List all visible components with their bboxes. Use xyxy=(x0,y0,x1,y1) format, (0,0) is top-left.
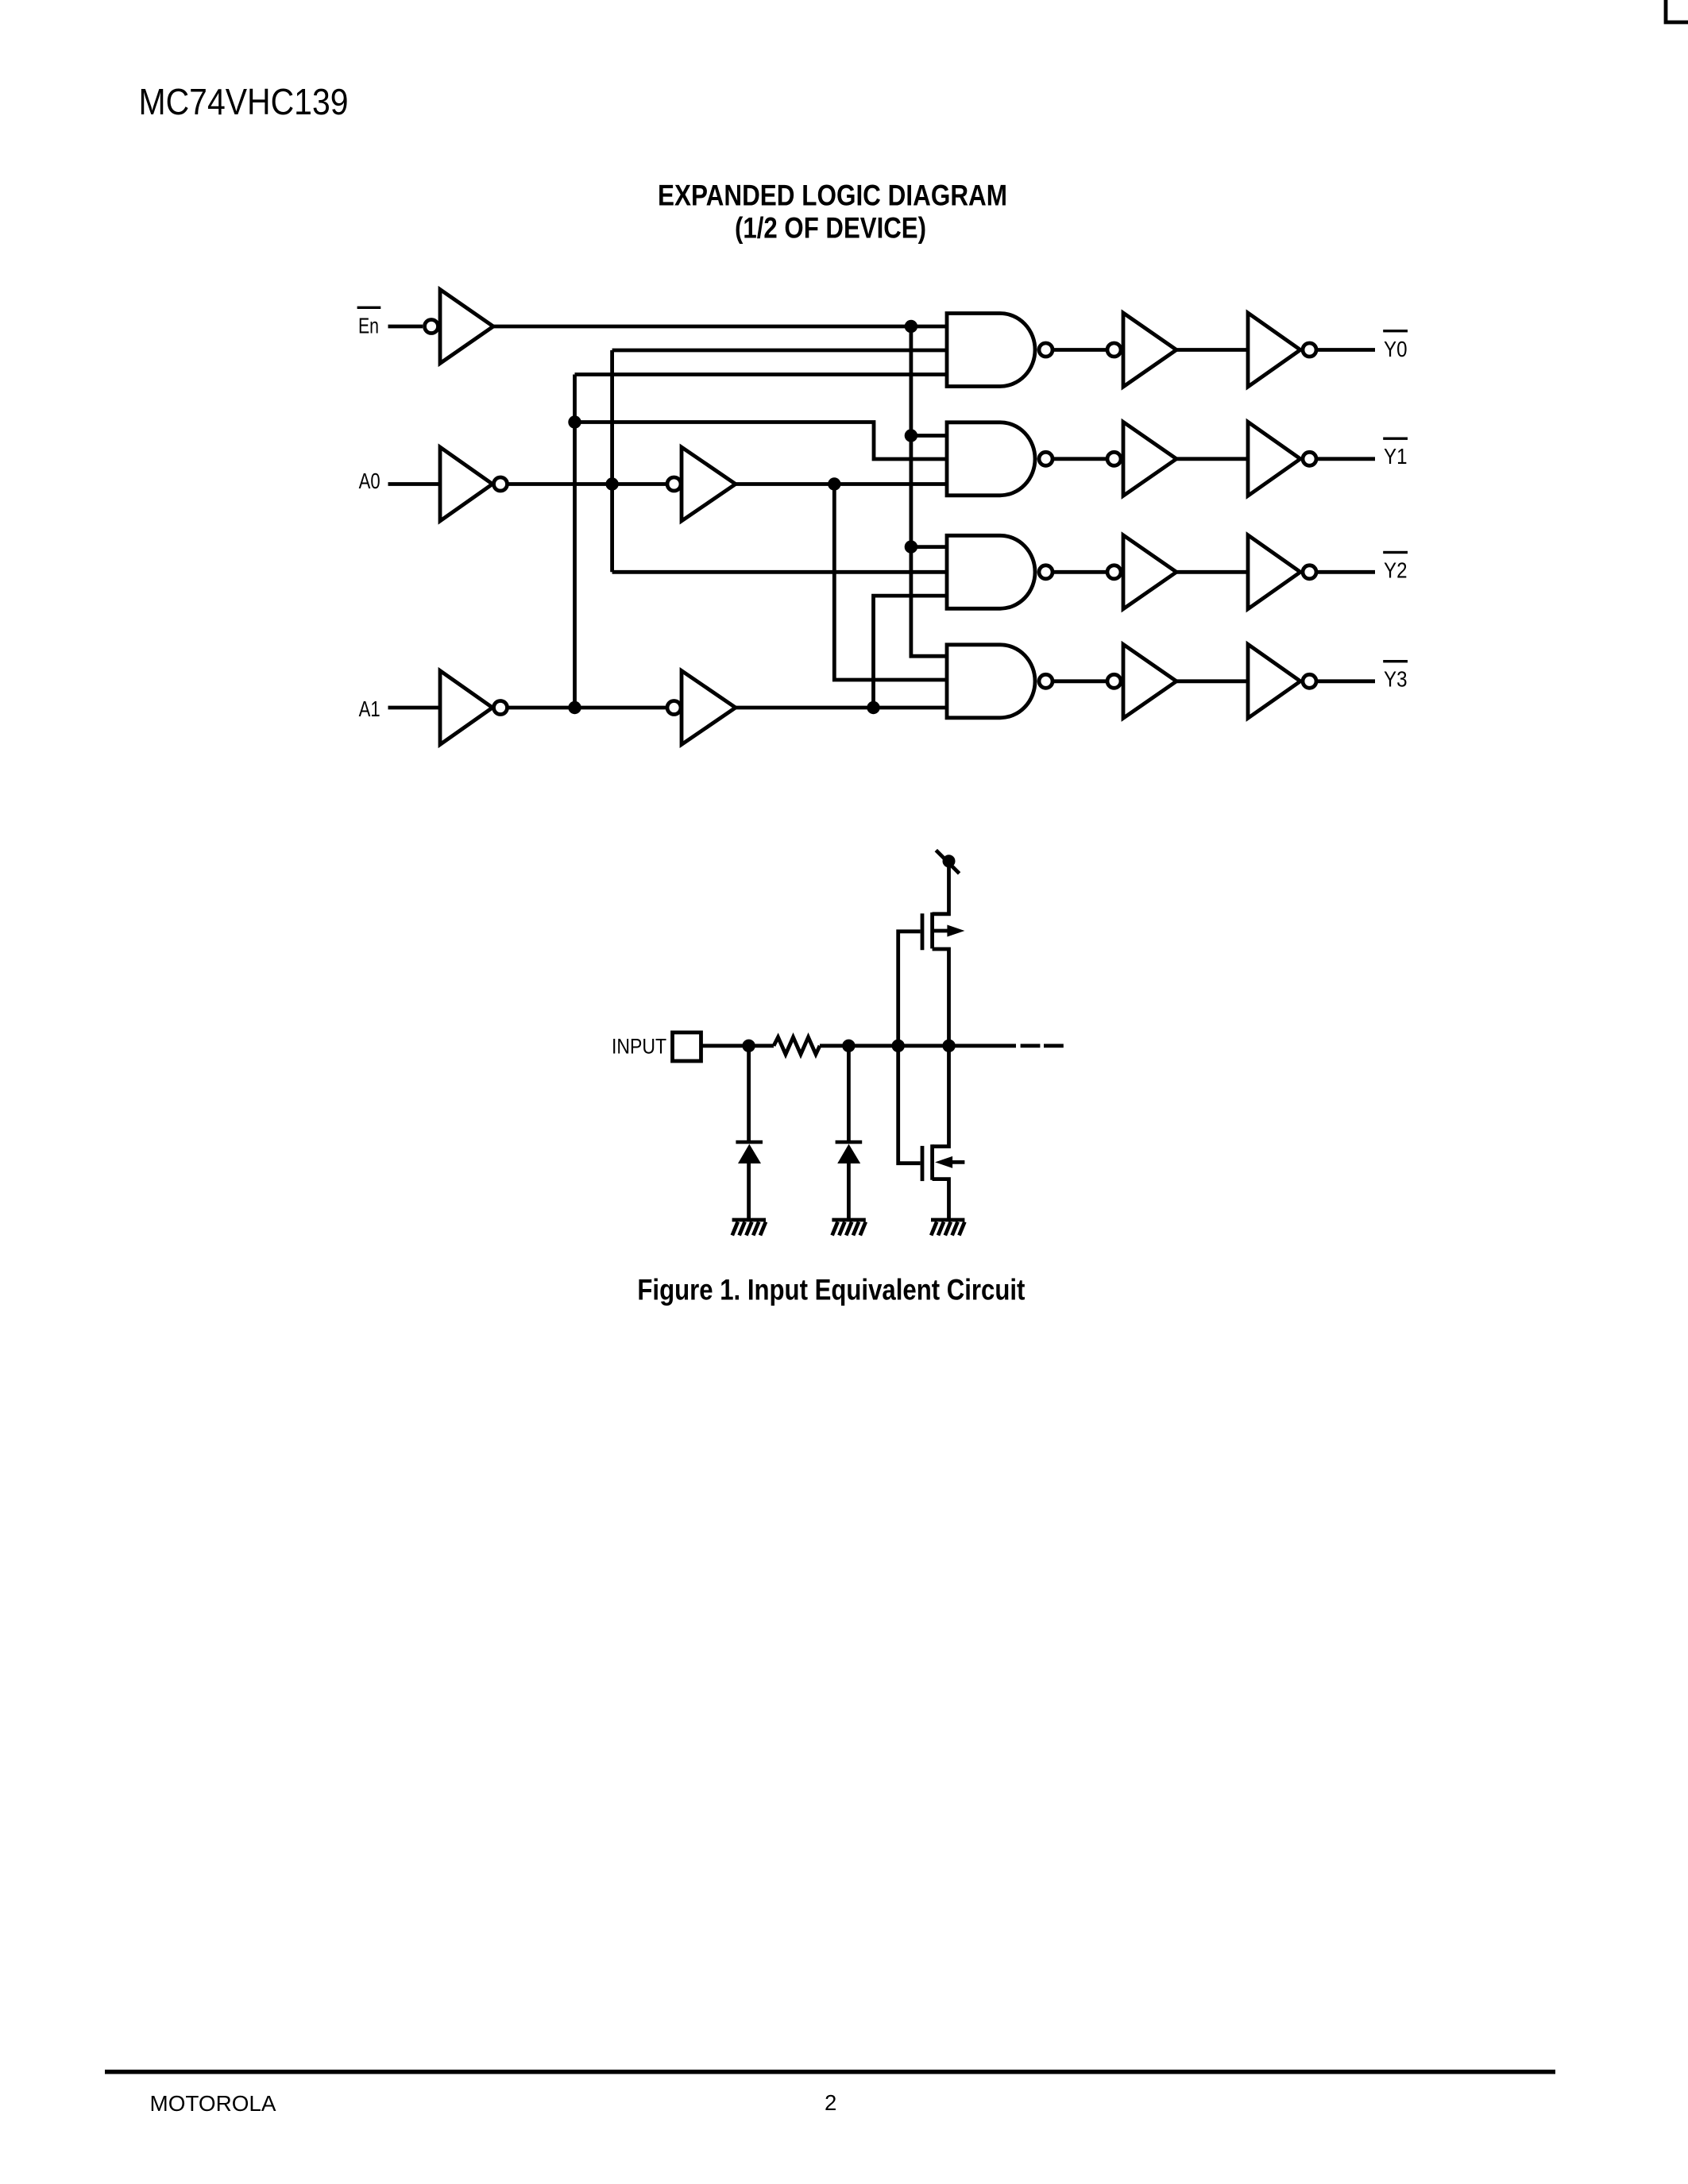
NAND gate G2 (Y1) xyxy=(947,423,1053,496)
node En label xyxy=(357,307,381,338)
wire D2 to ground xyxy=(847,1163,851,1220)
node Y3 label xyxy=(1383,660,1408,692)
diode D1 anode wire xyxy=(747,1046,751,1142)
diode D2 anode wire xyxy=(847,1046,851,1142)
node junction J2 xyxy=(842,1040,855,1052)
svg-text:(1/2 OF DEVICE): (1/2 OF DEVICE) xyxy=(735,212,926,245)
ground symbol D1 xyxy=(732,1220,766,1236)
wire row Y2 interstage xyxy=(1176,570,1248,574)
inverter U4a A1 (output bubble) xyxy=(440,671,508,745)
inverter U1a En (input bubble) xyxy=(425,290,494,364)
wire row Y1 interstage xyxy=(1176,457,1248,461)
wire A0-bar segment xyxy=(508,482,666,486)
node En bus to NAND3 junction xyxy=(905,540,917,553)
buffer U5a A1 second stage (input bubble) xyxy=(667,671,736,745)
wire En input xyxy=(388,325,423,329)
resistor R1 xyxy=(774,1037,820,1055)
wire gate bus vertical xyxy=(898,932,921,1163)
svg-text:MC74VHC139: MC74VHC139 xyxy=(139,81,349,122)
wire En vertical bus xyxy=(911,326,948,656)
wire En bus to NAND3 top input xyxy=(911,545,948,549)
footer rule xyxy=(105,2070,1555,2074)
svg-text:Y0: Y0 xyxy=(1384,337,1408,361)
svg-text:INPUT: INPUT xyxy=(612,1035,666,1059)
node En bus junction xyxy=(905,320,917,333)
wire A0 drop to NAND4 middle input xyxy=(834,484,948,681)
svg-text:Y1: Y1 xyxy=(1384,444,1408,469)
inverter U7c row Y2 (output bubble) xyxy=(1248,535,1316,609)
corner crop mark top right xyxy=(1666,0,1688,22)
buffer U6b row Y1 (input bubble) xyxy=(1107,422,1176,496)
svg-text:Y2: Y2 xyxy=(1384,558,1408,582)
buffer U6a row Y0 (input bubble) xyxy=(1107,313,1176,387)
svg-text:2: 2 xyxy=(825,2090,836,2115)
wire G2 output xyxy=(1053,457,1107,461)
NAND gate G1 (Y0) xyxy=(947,314,1053,387)
ground symbol Q2 xyxy=(931,1220,964,1236)
svg-text:EXPANDED LOGIC DIAGRAM: EXPANDED LOGIC DIAGRAM xyxy=(658,179,1007,212)
svg-text:Y3: Y3 xyxy=(1384,667,1408,692)
wire G3 output xyxy=(1053,570,1107,574)
wire A1-bar segment xyxy=(508,706,666,710)
wire A0 buffered to NAND2 bottom input xyxy=(736,482,948,486)
wire row Y2 output xyxy=(1316,570,1375,574)
wire A0-bar to NAND3 middle input xyxy=(612,570,948,574)
node Y2 label xyxy=(1383,551,1408,583)
node A1-bar bus junction xyxy=(568,701,581,714)
wire En output to NAND row 1 xyxy=(493,325,948,329)
svg-text:A0: A0 xyxy=(359,469,380,493)
node A1 riser junction xyxy=(867,701,879,714)
wire A1-bar to NAND1 bottom input xyxy=(575,372,948,376)
node Y0 label xyxy=(1383,330,1408,361)
wire row Y0 interstage xyxy=(1176,348,1248,352)
wire input to resistor xyxy=(703,1044,774,1048)
node input junction J1 xyxy=(742,1040,755,1052)
transistor Q2 NMOS xyxy=(922,1044,964,1220)
wire row Y3 output xyxy=(1316,679,1375,683)
wire G1 output xyxy=(1053,348,1107,352)
svg-text:En: En xyxy=(358,313,379,338)
svg-text:A1: A1 xyxy=(359,696,380,721)
wire G4 output xyxy=(1053,679,1107,683)
wire row Y1 output xyxy=(1316,457,1375,461)
node A1-bar branch junction xyxy=(568,415,581,428)
wire A1 input xyxy=(388,706,442,710)
NAND gate G4 (Y3) xyxy=(947,645,1053,718)
wire A0-bar to NAND1 middle input xyxy=(612,349,948,353)
buffer U3a A0 second stage (input bubble) xyxy=(667,447,736,521)
node junction J4 output xyxy=(942,1040,955,1052)
wire A0-bar vertical bus xyxy=(610,350,614,572)
diode D2 xyxy=(836,1140,863,1163)
inverter U7a row Y0 (output bubble) xyxy=(1248,313,1316,387)
inverter U2a A0 (output bubble) xyxy=(440,447,508,521)
wire row Y3 interstage xyxy=(1176,679,1248,683)
ground symbol D2 xyxy=(832,1220,865,1236)
wire En bus to NAND2 top input xyxy=(911,434,948,438)
input pad box xyxy=(673,1032,701,1061)
node A0-bar bus junction xyxy=(605,477,618,490)
wire A1 buffered to NAND4 bottom input xyxy=(736,706,948,710)
wire row Y0 output xyxy=(1316,348,1375,352)
node A0 drop junction xyxy=(828,477,840,490)
node junction J3 gate bus xyxy=(892,1040,905,1052)
svg-text:MOTOROLA: MOTOROLA xyxy=(150,2091,277,2116)
wire A1 riser to NAND3 bottom input xyxy=(874,596,948,708)
wire A1-bar branch to NAND2 middle input xyxy=(575,423,948,460)
svg-text:Figure 1. Input Equivalent Cir: Figure 1. Input Equivalent Circuit xyxy=(637,1273,1025,1306)
buffer U6c row Y2 (input bubble) xyxy=(1107,535,1176,609)
power VCC symbol xyxy=(936,851,959,874)
wire dashed output segment xyxy=(1021,1044,1064,1048)
wire A1-bar vertical bus xyxy=(573,375,577,708)
inverter U7b row Y1 (output bubble) xyxy=(1248,422,1316,496)
NAND gate G3 (Y2) xyxy=(947,535,1053,608)
node Y1 label xyxy=(1383,438,1408,469)
diode D1 xyxy=(736,1140,763,1163)
wire D1 to ground xyxy=(747,1163,751,1220)
transistor Q1 PMOS xyxy=(922,862,964,1048)
buffer U6d row Y3 (input bubble) xyxy=(1107,644,1176,718)
node En bus to NAND2 junction xyxy=(905,429,917,442)
wire A0 input xyxy=(388,482,442,486)
wire resistor to transistors xyxy=(820,1044,1016,1048)
inverter U7d row Y3 (output bubble) xyxy=(1248,644,1316,718)
